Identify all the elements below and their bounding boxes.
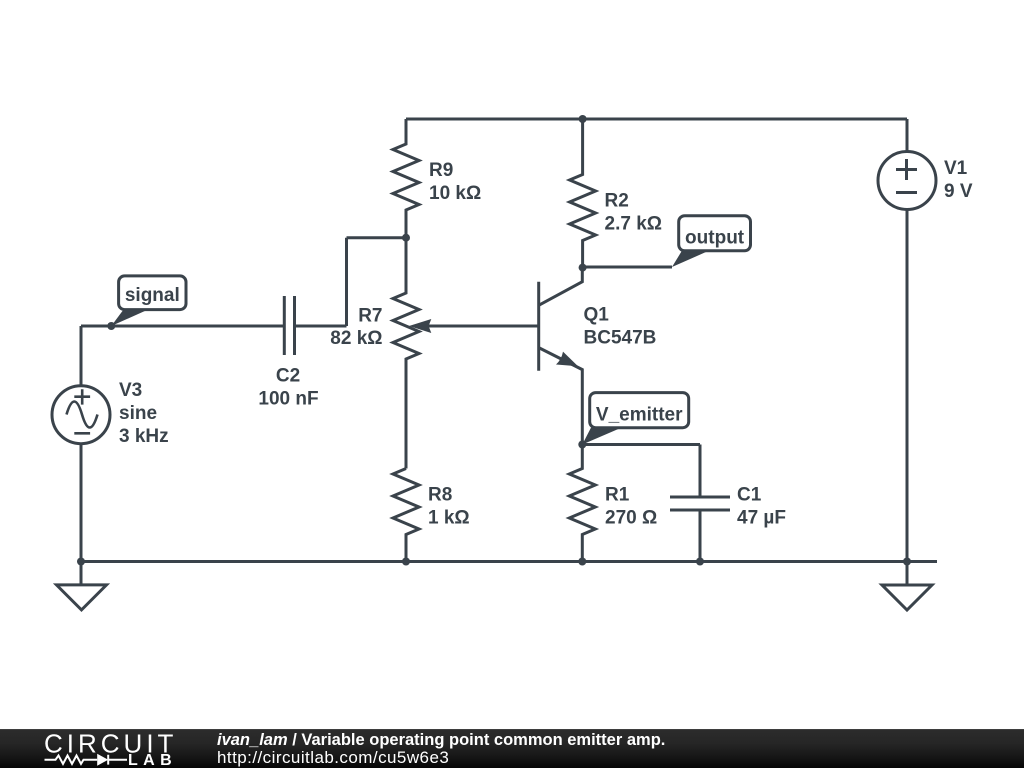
svg-text:V3: V3: [119, 380, 142, 401]
junction node emitter: [578, 441, 586, 449]
wire R7 wiper to Q1 base: [425, 325, 539, 328]
svg-text:R7: R7: [358, 306, 382, 327]
flag output: [672, 250, 711, 267]
svg-text:R8: R8: [428, 485, 452, 506]
svg-text:V_emitter: V_emitter: [596, 404, 683, 425]
voltage source V1: [878, 152, 936, 210]
ground right: [882, 585, 932, 610]
svg-text:270 Ω: 270 Ω: [605, 508, 657, 529]
svg-text:1 kΩ: 1 kΩ: [428, 508, 470, 529]
transistor Q1: [537, 282, 540, 371]
wire top rail: [406, 118, 907, 121]
ground left: [57, 585, 107, 610]
junction node bottom R1: [578, 558, 586, 566]
svg-text:output: output: [685, 228, 745, 249]
wire signal segment: [81, 325, 284, 328]
junction node bottom C1: [696, 558, 704, 566]
svg-text:R2: R2: [605, 191, 629, 212]
wire output segment: [583, 266, 672, 269]
svg-text:C1: C1: [737, 485, 762, 506]
junction node bottom V3: [77, 558, 85, 566]
wire bottom rail: [81, 560, 937, 563]
flag signal: [111, 308, 151, 326]
junction node top rail R2: [579, 115, 587, 123]
resistor R9: [393, 119, 419, 238]
svg-text:signal: signal: [125, 285, 180, 306]
wire V1 ground lead: [906, 562, 909, 586]
potentiometer R7: [393, 238, 419, 469]
flag V_emitter: [582, 428, 621, 445]
wire V1 bottom lead: [906, 210, 909, 562]
svg-text:100 nF: 100 nF: [258, 388, 318, 409]
resistor R1: [569, 445, 595, 562]
CircuitLab logo: [0, 730, 200, 768]
Q1 emitter arrowhead: [556, 352, 578, 367]
svg-text:Q1: Q1: [584, 305, 610, 326]
svg-text:LAB: LAB: [128, 752, 177, 768]
wire V1 top lead: [906, 119, 909, 152]
wire C2 to riser: [295, 238, 407, 326]
voltage source V3: [52, 386, 110, 444]
wire V3 ground lead: [80, 562, 83, 585]
svg-text:2.7 kΩ: 2.7 kΩ: [605, 214, 663, 235]
svg-text:sine: sine: [119, 403, 157, 424]
junction node R9/R7: [402, 234, 410, 242]
R7 wiper arrowhead: [409, 319, 431, 333]
wire V3 bottom lead: [80, 444, 83, 562]
junction node bottom V1: [903, 558, 911, 566]
wire left riser: [80, 326, 83, 386]
footer credit text: [216, 729, 218, 731]
resistor R2: [570, 119, 596, 268]
wire V_emitter segment: [582, 443, 700, 446]
junction node collector: [579, 264, 587, 272]
svg-text:82 kΩ: 82 kΩ: [330, 328, 382, 349]
svg-text:47 µF: 47 µF: [737, 508, 786, 529]
svg-text:3 kHz: 3 kHz: [119, 426, 169, 447]
svg-text:V1: V1: [944, 158, 968, 179]
resistor R8: [393, 469, 419, 562]
capacitor C1: [670, 445, 730, 562]
svg-text:R1: R1: [605, 485, 630, 506]
svg-text:R9: R9: [429, 160, 453, 181]
svg-text:BC547B: BC547B: [584, 328, 657, 349]
junction node signal: [107, 322, 115, 330]
svg-text:10 kΩ: 10 kΩ: [429, 183, 481, 204]
capacitor C2: [284, 296, 294, 355]
svg-text:C2: C2: [276, 366, 300, 387]
junction node bottom R8: [402, 558, 410, 566]
footer bar: [0, 729, 1024, 768]
svg-text:9 V: 9 V: [944, 181, 973, 202]
